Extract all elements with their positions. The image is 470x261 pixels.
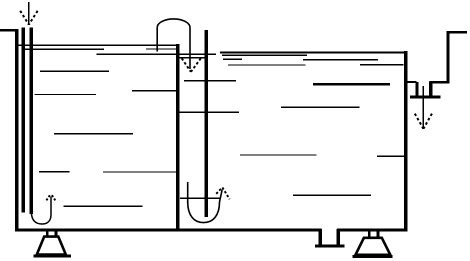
outlet down arrow stem [422, 86, 424, 127]
inlet U-bend up arrow head [46, 194, 55, 201]
left tank right wall [176, 44, 180, 232]
inlet pipe right wall [30, 28, 34, 215]
inlet pipe left wall [22, 28, 26, 213]
left foot neck right [54, 232, 57, 237]
left foot base bar [34, 254, 71, 257]
channel down arrow head [182, 58, 201, 72]
right foot neck right [377, 232, 380, 237]
right tank water line y185 [293, 194, 371, 196]
inlet down arrow head [20, 11, 37, 25]
right tank water line y155 right [377, 155, 404, 157]
outlet stub from right wall [407, 81, 417, 83]
channel water line y198 [180, 197, 220, 199]
right tank water line y59 right [303, 59, 378, 61]
right tank water line y154 [240, 154, 317, 156]
water line left tank y206 [64, 205, 143, 207]
bottom drain notch right wall [337, 229, 340, 245]
channel U-bend up arrow head [216, 188, 229, 200]
right foot neck left [368, 232, 371, 237]
left tank rim line [17, 44, 176, 46]
water line left tank y90 [132, 90, 176, 92]
siphon arch over left tank rim [157, 19, 190, 69]
water line left tank y172 left [39, 171, 70, 173]
inlet down arrow stem [28, 2, 30, 25]
tank bottom line left segment [15, 229, 322, 232]
water line left tank y94 [35, 94, 97, 96]
left foot trapezoid [37, 237, 66, 255]
right tank water line y106 [281, 106, 360, 108]
right tank right wall [404, 51, 408, 232]
channel U-bend under middle wall [188, 190, 223, 223]
right tank water line y55 [222, 54, 307, 56]
right tank rim line [220, 52, 404, 54]
bottom drain notch base bar [315, 245, 345, 248]
inlet feed line (top-left horizontal stub) [0, 29, 17, 32]
water line left tank y172 right [103, 171, 178, 173]
outlet weir base bar [410, 96, 441, 99]
right tank water line y59 left [223, 58, 242, 60]
water line left tank y49 left [22, 48, 104, 50]
water line left tank y71 [40, 70, 109, 72]
water line left tank y49 right [146, 48, 176, 50]
outlet upper horizontal ledge [430, 81, 450, 84]
right foot trapezoid [356, 238, 391, 255]
long water line y54 crossing walls [97, 53, 217, 55]
outlet top horizontal line [447, 31, 468, 33]
tank bottom line right segment [337, 229, 408, 232]
outlet weir left wall [416, 82, 419, 96]
bottom drain notch left wall [319, 229, 322, 245]
channel water line y81 [184, 80, 236, 82]
inlet pipe U-bend hook [31, 197, 51, 225]
outlet weir right wall [429, 82, 432, 97]
right tank water line y65 left [228, 64, 306, 66]
outlet riser wall [447, 31, 450, 83]
left foot neck left [46, 232, 49, 237]
channel dip pipe [187, 182, 189, 203]
right foot base bar [353, 255, 393, 258]
thick water line right tank [313, 83, 390, 86]
middle dividing wall [205, 30, 209, 217]
water line left tank y133 [54, 133, 133, 135]
right tank water line y65 right [360, 64, 404, 66]
outlet down arrow head [415, 114, 432, 129]
left outer tank wall [15, 29, 19, 232]
channel water line y57 [180, 57, 205, 59]
water line y112 crossing channel into right tank [179, 111, 239, 113]
